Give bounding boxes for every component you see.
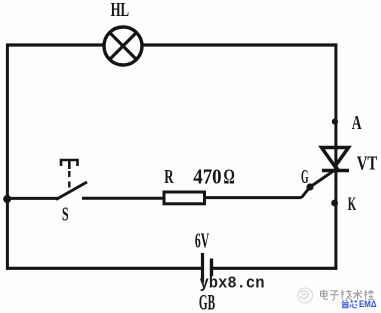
- svg-text:ybx8.cn: ybx8.cn: [200, 274, 265, 293]
- wire top: [6, 43, 337, 46]
- dashed actuator line: [68, 171, 70, 192]
- wire bottom right segment: [212, 267, 338, 270]
- svg-text:S: S: [62, 204, 69, 226]
- wire left: [6, 44, 9, 270]
- resistor R: [164, 165, 235, 204]
- node junction on left wire: [3, 195, 11, 203]
- svg-text:K: K: [348, 195, 357, 215]
- svg-text:6V: 6V: [195, 228, 209, 252]
- svg-text:G: G: [301, 167, 309, 188]
- node G: [306, 183, 313, 190]
- svg-text:GB: GB: [199, 290, 215, 313]
- svg-text:EMΔ: EMΔ: [359, 299, 377, 310]
- svg-text:VT: VT: [357, 153, 378, 175]
- svg-text:HL: HL: [111, 0, 130, 21]
- logo icon circle: [298, 288, 313, 303]
- push button stem: [68, 160, 71, 169]
- logo gray text 电子技术控: [321, 290, 375, 300]
- lamp HL: [104, 0, 142, 65]
- svg-text:R: R: [164, 167, 174, 188]
- wire resistor to gate: [204, 196, 302, 199]
- battery GB: [195, 228, 215, 313]
- svg-text:A: A: [352, 113, 362, 134]
- node K: [331, 200, 338, 207]
- switch S: [56, 160, 87, 226]
- push button bracket: [61, 160, 78, 166]
- wire right: [334, 44, 337, 270]
- wire bottom left segment: [6, 267, 203, 270]
- wire gate diagonal: [302, 168, 339, 198]
- wire switch to resistor: [82, 197, 164, 200]
- long plate: [201, 253, 204, 283]
- thyristor VT: [322, 148, 378, 175]
- node A: [332, 119, 338, 125]
- wire branch left (to switch): [7, 197, 58, 200]
- short plate: [210, 259, 213, 277]
- logo blue text 首芯EMA: [342, 299, 377, 310]
- svg-text:470: 470: [193, 165, 221, 189]
- blade: [56, 182, 87, 200]
- svg-text:Ω: Ω: [224, 165, 235, 189]
